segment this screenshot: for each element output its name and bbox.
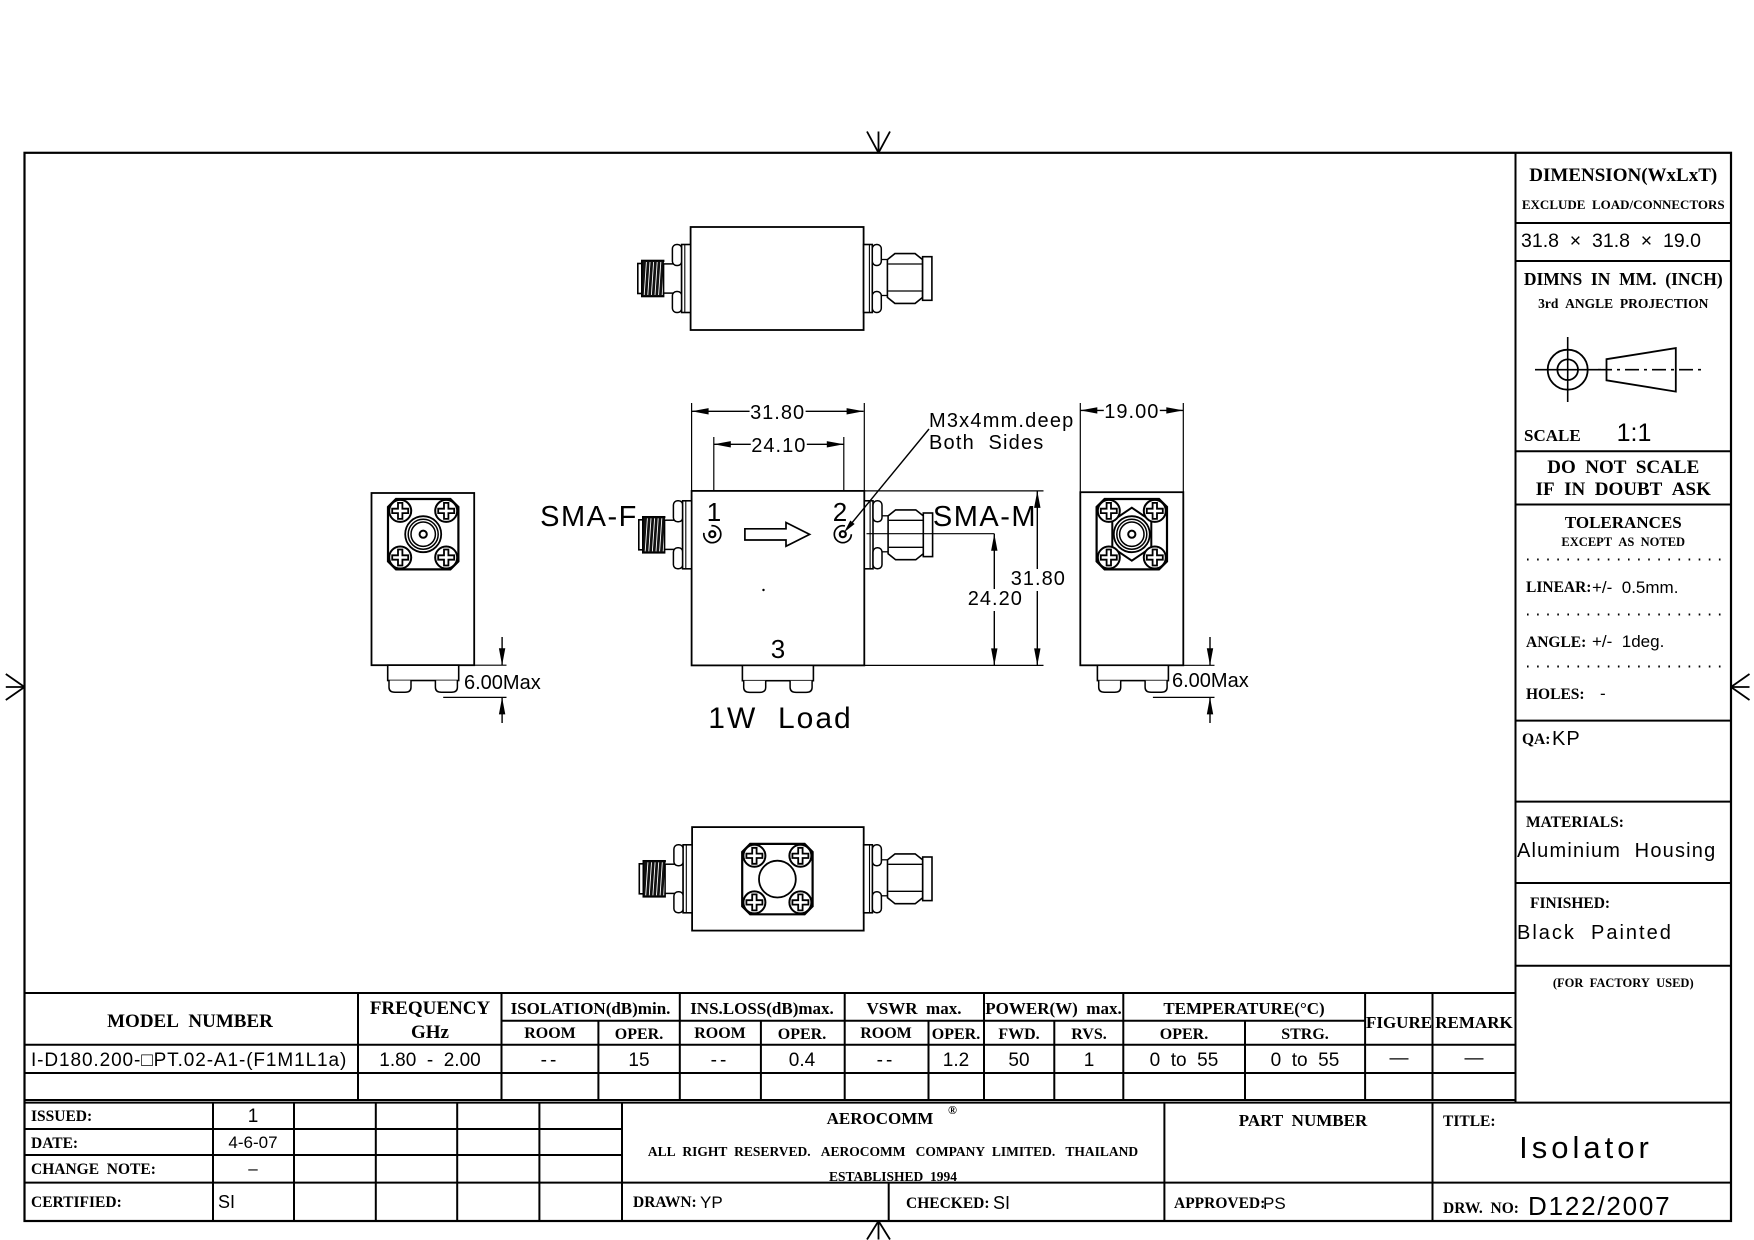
svg-text:ISOLATION(dB)min.: ISOLATION(dB)min.	[511, 999, 671, 1018]
svg-text:FREQUENCY: FREQUENCY	[370, 998, 491, 1019]
svg-text:1: 1	[707, 497, 721, 527]
svg-text:MATERIALS:: MATERIALS:	[1526, 814, 1624, 831]
svg-text:SCALE: SCALE	[1524, 426, 1581, 445]
svg-text:IF IN DOUBT ASK: IF IN DOUBT ASK	[1536, 479, 1711, 500]
svg-text:Aluminium Housing: Aluminium Housing	[1517, 840, 1716, 862]
svg-text:Both Sides: Both Sides	[929, 432, 1045, 454]
svg-text:4-6-07: 4-6-07	[228, 1133, 277, 1152]
svg-text:ROOM: ROOM	[524, 1025, 576, 1042]
svg-text:--: --	[711, 1050, 730, 1071]
svg-text:SI: SI	[993, 1193, 1010, 1213]
svg-text:MODEL NUMBER: MODEL NUMBER	[107, 1011, 273, 1032]
svg-text:HOLES:: HOLES:	[1526, 686, 1585, 703]
svg-text:OPER.: OPER.	[615, 1026, 663, 1043]
svg-text:ROOM: ROOM	[860, 1025, 912, 1042]
svg-text:INS.LOSS(dB)max.: INS.LOSS(dB)max.	[690, 999, 834, 1018]
svg-text:0 to 55: 0 to 55	[1271, 1050, 1340, 1071]
svg-text:SMA-F: SMA-F	[540, 501, 638, 533]
svg-text:OPER.: OPER.	[932, 1026, 980, 1043]
svg-text:KP: KP	[1552, 728, 1581, 750]
svg-text:DIMENSION(WxLxT): DIMENSION(WxLxT)	[1529, 165, 1717, 186]
svg-text:2: 2	[833, 497, 847, 527]
svg-text:ALL RIGHT RESERVED. AEROCO: ALL RIGHT RESERVED. AEROCOMM COMPANY LIM…	[648, 1144, 1138, 1159]
svg-text:DRAWN:: DRAWN:	[633, 1194, 697, 1211]
svg-text:-: -	[1600, 684, 1606, 703]
svg-text:OPER.: OPER.	[778, 1026, 826, 1043]
svg-text:1.80 - 2.00: 1.80 - 2.00	[379, 1050, 480, 1071]
svg-text:PART NUMBER: PART NUMBER	[1239, 1111, 1368, 1130]
svg-text:1: 1	[248, 1106, 259, 1127]
svg-text:D122/2007: D122/2007	[1528, 1191, 1671, 1221]
svg-text:DATE:: DATE:	[31, 1135, 78, 1152]
svg-text:0 to 55: 0 to 55	[1150, 1050, 1219, 1071]
svg-text:AEROCOMM: AEROCOMM	[827, 1109, 934, 1128]
svg-text:15: 15	[628, 1050, 649, 1071]
svg-text:19.00: 19.00	[1104, 401, 1159, 423]
svg-text:FINISHED:: FINISHED:	[1530, 895, 1610, 912]
svg-text:Black Painted: Black Painted	[1517, 922, 1673, 944]
svg-text:1:1: 1:1	[1617, 419, 1652, 447]
svg-text:+/- 1deg.: +/- 1deg.	[1592, 632, 1664, 651]
svg-text:0.4: 0.4	[789, 1050, 816, 1071]
svg-text:DO NOT SCALE: DO NOT SCALE	[1547, 457, 1699, 478]
svg-text:RVS.: RVS.	[1071, 1026, 1106, 1043]
svg-text:YP: YP	[700, 1193, 723, 1212]
svg-text:--: --	[877, 1050, 896, 1071]
svg-text:6.00Max: 6.00Max	[1172, 670, 1249, 692]
svg-text:–: –	[248, 1159, 258, 1178]
svg-text:APPROVED:: APPROVED:	[1174, 1195, 1265, 1212]
svg-text:VSWR max.: VSWR max.	[867, 999, 962, 1018]
svg-text:POWER(W) max.: POWER(W) max.	[985, 999, 1121, 1018]
svg-text:CERTIFIED:: CERTIFIED:	[31, 1194, 122, 1211]
svg-text:—: —	[1390, 1048, 1409, 1069]
svg-text:SMA-M: SMA-M	[933, 501, 1037, 533]
svg-text:LINEAR:: LINEAR:	[1526, 579, 1591, 596]
svg-text:Isolator: Isolator	[1519, 1130, 1653, 1165]
svg-text:31.8 × 31.8 × 19.0: 31.8 × 31.8 × 19.0	[1521, 230, 1701, 252]
svg-text:FWD.: FWD.	[998, 1026, 1039, 1043]
svg-text:50: 50	[1008, 1050, 1029, 1071]
svg-text:FIGURE: FIGURE	[1366, 1013, 1432, 1032]
svg-text:ANGLE:: ANGLE:	[1526, 634, 1586, 651]
svg-text:ROOM: ROOM	[694, 1025, 746, 1042]
svg-text:ISSUED:: ISSUED:	[31, 1108, 92, 1125]
svg-text:DIMNS IN MM. (INCH): DIMNS IN MM. (INCH)	[1524, 269, 1723, 289]
svg-text:M3x4mm.deep: M3x4mm.deep	[929, 410, 1074, 432]
svg-text:ESTABLISHED 1994: ESTABLISHED 1994	[829, 1169, 957, 1184]
svg-text:GHz: GHz	[411, 1022, 450, 1043]
svg-text:DRW. NO:: DRW. NO:	[1443, 1200, 1519, 1217]
svg-text:TEMPERATURE(°C): TEMPERATURE(°C)	[1163, 999, 1324, 1018]
svg-text:3: 3	[771, 634, 785, 664]
svg-text:OPER.: OPER.	[1160, 1026, 1208, 1043]
svg-text:TITLE:: TITLE:	[1443, 1113, 1496, 1130]
svg-text:1W Load: 1W Load	[708, 702, 852, 735]
svg-text:31.80: 31.80	[1011, 568, 1066, 590]
svg-text:EXCLUDE LOAD/CONNECTORS: EXCLUDE LOAD/CONNECTORS	[1522, 197, 1725, 212]
svg-text:(FOR FACTORY USED): (FOR FACTORY USED)	[1553, 976, 1694, 990]
svg-text:EXCEPT AS NOTED: EXCEPT AS NOTED	[1561, 535, 1685, 549]
svg-text:1.2: 1.2	[943, 1050, 969, 1071]
svg-text:+/- 0.5mm.: +/- 0.5mm.	[1592, 578, 1678, 597]
svg-text:--: --	[541, 1050, 560, 1071]
svg-text:1: 1	[1084, 1050, 1095, 1071]
svg-text:REMARK: REMARK	[1435, 1013, 1513, 1032]
svg-text:31.80: 31.80	[750, 402, 805, 424]
svg-text:®: ®	[948, 1103, 957, 1117]
svg-text:—: —	[1465, 1048, 1484, 1069]
svg-text:6.00Max: 6.00Max	[464, 672, 541, 694]
svg-text:TOLERANCES: TOLERANCES	[1565, 513, 1682, 532]
svg-text:CHECKED:: CHECKED:	[906, 1195, 990, 1212]
svg-text:PS: PS	[1263, 1194, 1286, 1213]
svg-text:QA:: QA:	[1522, 731, 1550, 748]
svg-text:STRG.: STRG.	[1281, 1026, 1329, 1043]
svg-text:CHANGE NOTE:: CHANGE NOTE:	[31, 1161, 156, 1178]
svg-text:24.10: 24.10	[751, 435, 806, 457]
svg-text:24.20: 24.20	[968, 588, 1023, 610]
svg-text:3rd ANGLE PROJECTION: 3rd ANGLE PROJECTION	[1538, 296, 1709, 311]
svg-text:I-D180.200-□PT.02-A1-(F1M1L1a): I-D180.200-□PT.02-A1-(F1M1L1a)	[31, 1050, 347, 1071]
svg-text:SI: SI	[218, 1192, 235, 1212]
